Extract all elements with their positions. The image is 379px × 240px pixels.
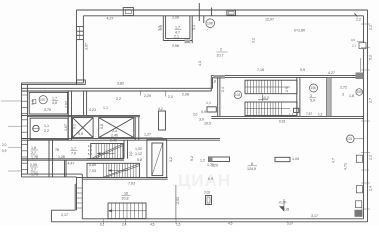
svg-text:2,09: 2,09	[30, 163, 37, 167]
tick right wall y170	[361, 169, 369, 171]
svg-text:1,1: 1,1	[44, 124, 49, 128]
svg-text:4,8: 4,8	[52, 101, 57, 105]
door on wall C left end	[214, 75, 225, 79]
svg-text:3: 3	[342, 93, 344, 97]
svg-text:1,0: 1,0	[129, 151, 133, 156]
svg-text:101: 101	[347, 137, 353, 141]
wire top outer wall	[77, 9, 368, 11]
svg-text:5,8: 5,8	[88, 152, 93, 156]
washbasin circle	[33, 125, 39, 131]
svg-text:1,1: 1,1	[103, 106, 108, 110]
window hatch left lower wall	[77, 188, 83, 208]
wire step wall upper-left	[22, 82, 84, 84]
vent shaft X-box 2	[99, 118, 134, 138]
elevation flag	[279, 206, 284, 211]
vent box on top wall A	[123, 8, 133, 16]
svg-text:ЦИАН: ЦИАН	[178, 171, 231, 190]
wire bottom inner wall	[82, 218, 363, 220]
svg-text:3,82: 3,82	[117, 82, 124, 86]
svg-text:2,2: 2,2	[369, 155, 373, 160]
wire step wall lower-left	[22, 173, 83, 175]
svg-text:7,0: 7,0	[71, 152, 76, 156]
tick below top wall	[203, 16, 205, 23]
svg-text:1,12: 1,12	[135, 152, 142, 156]
svg-text:2,4: 2,4	[122, 223, 127, 227]
bottom wall of stair block	[77, 176, 168, 178]
svg-text:1,8: 1,8	[349, 94, 354, 98]
wire right inner wall	[363, 16, 365, 219]
svg-text:2,2: 2,2	[356, 18, 361, 22]
circle 108	[39, 19, 363, 143]
svg-text:4,5: 4,5	[150, 223, 155, 227]
sink mark kitchen	[33, 100, 36, 104]
duct line left of right wall	[360, 58, 362, 72]
comb stair bottom	[108, 203, 146, 219]
wall C mid horizontal right part	[211, 75, 363, 77]
room top-small right wall	[189, 16, 191, 39]
vent shaft X-box 1	[73, 118, 94, 138]
wire top inner wall	[83, 15, 363, 17]
svg-text:10,2: 10,2	[262, 96, 269, 100]
svg-text:2,7: 2,7	[369, 98, 373, 103]
central stair left wall D	[217, 77, 219, 116]
svg-text:5,89: 5,89	[89, 163, 96, 167]
svg-text:0,9: 0,9	[201, 110, 206, 114]
svg-text:7,03: 7,03	[128, 182, 135, 186]
kitchen right wall	[67, 91, 69, 140]
svg-text:3,67: 3,67	[85, 43, 89, 50]
svg-text:0,9: 0,9	[2, 149, 7, 153]
svg-text:4,7: 4,7	[332, 158, 336, 163]
svg-text:2,40: 2,40	[111, 134, 118, 138]
central stair flight lower	[245, 102, 299, 116]
circle 101	[347, 135, 355, 143]
svg-text:1,7: 1,7	[71, 147, 76, 151]
svg-text:2,2: 2,2	[116, 97, 121, 101]
svg-text:20,8: 20,8	[122, 197, 129, 201]
svg-text:-0,20: -0,20	[278, 201, 286, 205]
chimney box on wall A	[77, 80, 86, 84]
svg-text:2,0: 2,0	[2, 143, 7, 147]
bathroom room box	[30, 118, 68, 139]
wire left mid wall inner	[27, 85, 29, 175]
svg-text:8: 8	[251, 162, 253, 166]
svg-text:5,2: 5,2	[369, 55, 373, 60]
tick below wall A 2	[140, 91, 142, 96]
svg-text:3,4: 3,4	[192, 25, 196, 30]
svg-text:7,03: 7,03	[89, 169, 96, 173]
svg-text:2,9: 2,9	[285, 87, 289, 92]
svg-text:2,72: 2,72	[340, 86, 347, 90]
svg-text:2,7: 2,7	[31, 168, 36, 172]
svg-text:2,0: 2,0	[168, 95, 173, 99]
svg-text:5,5: 5,5	[78, 132, 83, 136]
window hatch left mid wall	[22, 95, 28, 169]
svg-text:2,5: 2,5	[159, 25, 163, 30]
door small room	[185, 40, 191, 44]
svg-text:2,08: 2,08	[182, 93, 189, 97]
pilaster rect	[159, 111, 166, 130]
stair arrow line	[258, 99, 268, 101]
wire bottom outer wall	[51, 221, 367, 223]
svg-text:h=2,80: h=2,80	[294, 29, 305, 33]
svg-text:2,4: 2,4	[221, 87, 225, 92]
svg-text:2,75: 2,75	[44, 108, 51, 112]
svg-text:3: 3	[310, 94, 312, 98]
circle 106	[310, 84, 318, 92]
tick top right corner	[355, 14, 358, 17]
svg-text:4,47: 4,47	[68, 162, 75, 166]
wire left upper outer wall	[76, 10, 78, 85]
wire notch horizontal	[51, 209, 75, 211]
svg-text:105: 105	[357, 90, 363, 94]
svg-text:1,26: 1,26	[58, 155, 65, 159]
wire notch vertical at bottom-left	[74, 184, 76, 210]
svg-text:2,4: 2,4	[112, 129, 117, 133]
wall A to C connector	[210, 76, 212, 91]
left ticks	[1, 101, 21, 171]
svg-text:0,28: 0,28	[283, 208, 289, 212]
svg-text:5,9: 5,9	[310, 99, 315, 103]
svg-text:1,2: 1,2	[318, 113, 323, 117]
svg-text:1,2: 1,2	[200, 159, 205, 163]
svg-text:1,1: 1,1	[289, 113, 294, 117]
left small rooms divider vertical	[48, 140, 50, 177]
wire left upper inner wall	[82, 16, 84, 83]
room top-small bottom wall	[163, 40, 192, 42]
svg-text:2,40: 2,40	[110, 139, 117, 143]
svg-text:7,67: 7,67	[306, 112, 312, 116]
wall A mid horizontal left part	[22, 87, 213, 89]
svg-text:1,76: 1,76	[31, 156, 38, 160]
svg-text:1,7: 1,7	[52, 97, 57, 101]
svg-text:5,8: 5,8	[137, 158, 142, 162]
svg-text:4,27: 4,27	[107, 17, 114, 21]
right wall dark box at wall C junction	[356, 73, 364, 80]
svg-text:1,04: 1,04	[292, 157, 299, 161]
elevator shaft box	[147, 140, 167, 178]
svg-text:0,8: 0,8	[100, 124, 104, 129]
svg-text:2,1: 2,1	[174, 35, 179, 39]
wire left lower inner wall	[81, 174, 83, 219]
svg-text:1,67: 1,67	[65, 101, 69, 108]
right wall box 1	[359, 43, 366, 49]
svg-text:16: 16	[124, 192, 128, 196]
right wall fittings	[355, 14, 371, 217]
svg-text:3,2: 3,2	[252, 38, 256, 43]
svg-text:4,71: 4,71	[344, 163, 348, 170]
svg-text:1,76: 1,76	[31, 173, 38, 177]
svg-text:0,1: 0,1	[73, 124, 77, 129]
svg-text:2,08: 2,08	[172, 16, 179, 20]
ledge line under pilaster	[134, 137, 163, 139]
svg-text:2,01: 2,01	[176, 197, 180, 204]
svg-text:108: 108	[207, 22, 213, 26]
stair block bottom wall	[211, 115, 363, 117]
ticks on bottom wall	[104, 219, 177, 224]
tick crossing top wall	[198, 3, 200, 21]
svg-text:4,3: 4,3	[198, 61, 202, 66]
stair flight 2 bottom-left	[87, 163, 140, 177]
vent box on top wall B	[227, 10, 236, 15]
svg-text:12,97: 12,97	[265, 18, 274, 22]
column 2 in hall	[275, 157, 290, 161]
svg-text:1,1: 1,1	[206, 101, 211, 105]
svg-text:1,27: 1,27	[144, 133, 151, 137]
tick crossing top wall 2	[211, 8, 213, 17]
svg-text:107: 107	[40, 98, 46, 102]
svg-text:2,29: 2,29	[144, 94, 151, 98]
circle 103	[234, 91, 242, 99]
svg-text:124,9: 124,9	[247, 167, 256, 171]
svg-text:7б: 7б	[55, 148, 59, 152]
svg-text:4,27: 4,27	[328, 71, 335, 75]
room top-small left wall	[162, 16, 164, 41]
circle 107	[39, 96, 47, 104]
svg-text:2,2: 2,2	[369, 25, 373, 30]
svg-text:2,06: 2,06	[172, 44, 179, 48]
svg-text:7,16: 7,16	[257, 68, 264, 72]
circle 105	[356, 89, 363, 96]
wall right of X-box2	[134, 117, 136, 141]
svg-text:4,2: 4,2	[158, 107, 163, 111]
svg-text:0,8: 0,8	[211, 80, 216, 84]
svg-text:9,2: 9,2	[190, 156, 194, 161]
svg-text:10,7: 10,7	[217, 54, 224, 58]
wall right of flight1	[123, 140, 125, 158]
wire left lower outer wall	[76, 177, 78, 210]
svg-text:0,9: 0,9	[31, 100, 35, 105]
column 1 in hall	[209, 157, 230, 162]
svg-text:2,7: 2,7	[31, 151, 36, 155]
tick below wall A 1	[165, 91, 167, 97]
partition line in hall	[175, 185, 177, 219]
kitchen room 107 box	[29, 92, 67, 114]
landing line	[87, 158, 124, 160]
svg-text:0,9: 0,9	[300, 68, 305, 72]
right wall dark box bottom	[356, 201, 362, 208]
ticks across right wall	[361, 24, 370, 209]
svg-text:1,02: 1,02	[135, 147, 142, 151]
svg-text:103: 103	[235, 93, 241, 97]
svg-text:6,1: 6,1	[100, 223, 105, 227]
kitchen row bottom wall	[22, 114, 141, 116]
svg-text:3,2: 3,2	[169, 157, 173, 162]
flue wall	[83, 91, 85, 115]
svg-text:2,02: 2,02	[204, 191, 210, 195]
svg-text:3,0: 3,0	[351, 38, 355, 42]
svg-text:4,5: 4,5	[228, 222, 233, 226]
box on wall D	[207, 107, 216, 112]
corridor top wall	[22, 138, 221, 140]
window left upper wall	[77, 27, 84, 40]
svg-text:1,7: 1,7	[175, 26, 180, 30]
wire left mid wall outer	[21, 83, 23, 177]
svg-text:3,17: 3,17	[311, 214, 318, 218]
small wall in lower-left room	[64, 160, 66, 177]
svg-text:2,2: 2,2	[44, 129, 49, 133]
left small rooms divider horizontal	[22, 158, 125, 160]
svg-text:1,75: 1,75	[207, 163, 214, 167]
electrical panel symbol	[206, 196, 212, 205]
svg-text:1,5: 1,5	[176, 223, 181, 227]
wire right outer wall	[367, 10, 369, 222]
wire notch left vertical	[50, 210, 52, 222]
svg-text:2: 2	[220, 48, 222, 52]
svg-text:2,17: 2,17	[61, 213, 68, 217]
right wall box 4	[356, 186, 362, 193]
stair flight 1 bottom-left	[91, 144, 123, 159]
svg-text:4,23: 4,23	[89, 108, 96, 112]
svg-text:2,1: 2,1	[352, 44, 356, 48]
svg-text:2,0: 2,0	[193, 113, 198, 117]
svg-text:2,4: 2,4	[369, 186, 373, 191]
svg-text:1,8: 1,8	[31, 146, 36, 150]
svg-text:5,37: 5,37	[287, 222, 293, 226]
svg-text:106: 106	[311, 86, 317, 90]
central stair flight upper	[245, 80, 297, 94]
svg-text:10,5: 10,5	[204, 122, 211, 126]
svg-text:9,23: 9,23	[279, 120, 285, 124]
svg-text:1,67: 1,67	[64, 124, 68, 131]
right wall box 3	[356, 155, 362, 162]
shaft wall F grey	[326, 77, 331, 116]
wall E stairwell right	[296, 77, 298, 116]
